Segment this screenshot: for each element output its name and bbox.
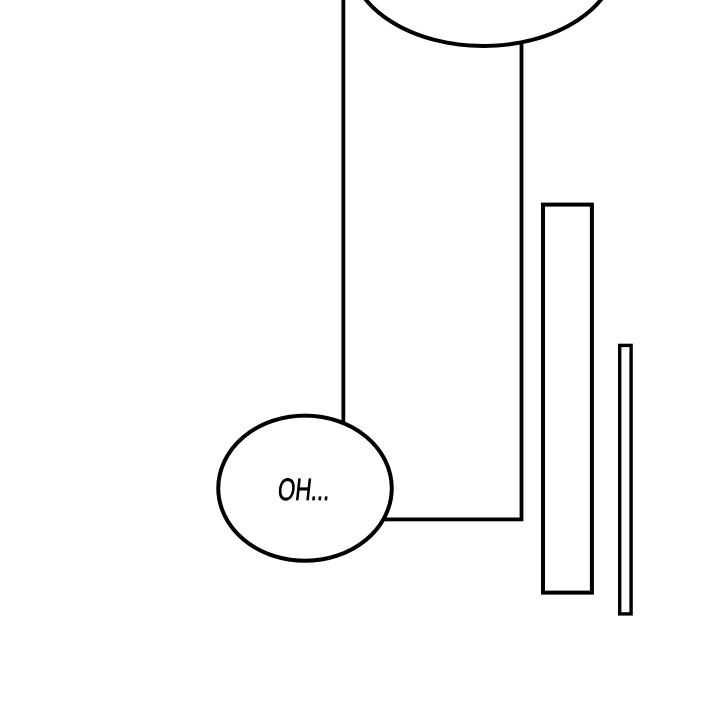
panel 3 border (thin rectangle)	[620, 345, 631, 614]
speech bubble top (cropped)	[349, 0, 617, 46]
panel 1 border	[343, 0, 521, 519]
svg-text:OH...: OH...	[276, 472, 332, 507]
panel 2 border (tall rectangle)	[543, 205, 592, 593]
speech bubble OH	[218, 416, 392, 561]
